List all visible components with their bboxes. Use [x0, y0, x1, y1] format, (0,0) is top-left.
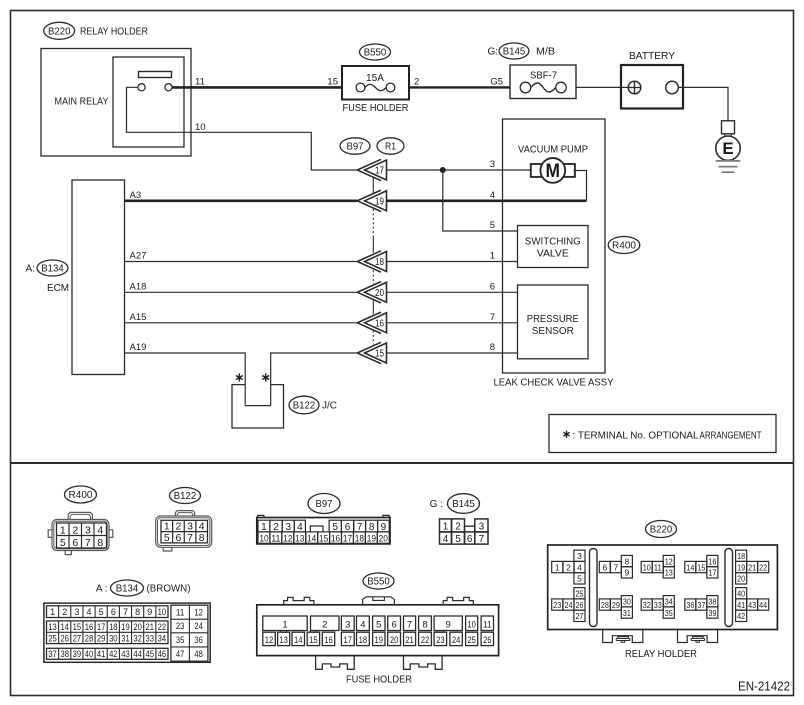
svg-text:A18: A18: [130, 281, 147, 292]
svg-text:M: M: [546, 161, 561, 182]
svg-text:19: 19: [375, 635, 384, 645]
relay holder mounting feet: [603, 630, 718, 643]
svg-text:38: 38: [708, 596, 716, 606]
svg-text:G:: G:: [487, 47, 498, 58]
svg-text:24: 24: [194, 621, 203, 631]
svg-text:A27: A27: [130, 251, 147, 262]
svg-text:8: 8: [199, 532, 205, 544]
svg-text:15: 15: [327, 77, 338, 88]
svg-text:VACUUM PUMP: VACUUM PUMP: [518, 145, 588, 156]
connector B122 pinout label: [170, 488, 201, 504]
svg-text:18: 18: [737, 551, 745, 561]
svg-text:9: 9: [446, 619, 451, 630]
svg-text:23: 23: [176, 621, 185, 631]
pin 2 label: [414, 77, 419, 88]
svg-text:B550: B550: [364, 47, 387, 59]
connector B145 label with M/B: [487, 43, 555, 59]
svg-text:20: 20: [133, 622, 142, 632]
svg-text:5: 5: [164, 532, 170, 544]
fuse F1 symbol: [356, 83, 395, 92]
svg-text:18: 18: [355, 534, 364, 545]
connector R400 label mid: [608, 237, 640, 254]
ground connector ticks: [725, 134, 731, 137]
fuse F1 15A value: [366, 73, 384, 84]
svg-text:17: 17: [343, 534, 352, 545]
svg-text:PRESSURE: PRESSURE: [527, 314, 579, 325]
pin 5 label: [490, 220, 495, 231]
connector B220 pinout label: [646, 521, 677, 538]
svg-text:(BROWN): (BROWN): [147, 584, 191, 595]
wire ECM A27 to triangle 18: [125, 261, 358, 263]
svg-text:19: 19: [121, 622, 130, 632]
wire triangle 20 to pin 6: [387, 291, 518, 293]
pin 15 label: [327, 77, 338, 88]
svg-text:44: 44: [133, 649, 142, 659]
svg-text:43: 43: [748, 600, 756, 610]
pin 3 label: [490, 159, 495, 170]
svg-text:21: 21: [146, 622, 155, 632]
svg-text:E: E: [722, 139, 733, 158]
link triangle 18-20 dashed: [372, 270, 374, 284]
svg-text:1: 1: [60, 524, 66, 536]
svg-text:11: 11: [176, 608, 185, 618]
svg-text:G :: G :: [430, 499, 443, 510]
svg-text:4: 4: [87, 607, 92, 617]
svg-text:R1: R1: [385, 141, 396, 153]
svg-text:41: 41: [737, 600, 745, 610]
wire triangle 16 to pin 7: [387, 322, 518, 324]
leak check valve assy box: [503, 119, 606, 373]
wire battery to ground E: [678, 87, 728, 120]
svg-text:B145: B145: [503, 46, 526, 58]
wire ECM A19 to junction connector: [125, 353, 246, 406]
svg-text:34: 34: [158, 634, 167, 644]
svg-text:37: 37: [48, 649, 57, 659]
svg-text:14: 14: [60, 622, 69, 632]
SBF-7 value label: [530, 71, 557, 82]
svg-text:R400: R400: [69, 489, 93, 501]
svg-text:18: 18: [109, 622, 118, 632]
svg-text:25: 25: [48, 634, 57, 644]
svg-text:12: 12: [665, 556, 673, 566]
connector B134 label A: [26, 260, 68, 276]
svg-text:34: 34: [665, 596, 673, 606]
svg-text:43: 43: [121, 649, 130, 659]
svg-text:8: 8: [135, 607, 140, 617]
svg-text:17: 17: [375, 166, 384, 177]
svg-text:3: 3: [577, 551, 582, 561]
optional terminal asterisk left: [236, 374, 243, 382]
relay holder cells left: [552, 550, 585, 621]
svg-text:A15: A15: [130, 312, 147, 323]
wire relay pin 10 to triangle 17: [127, 87, 358, 170]
connector R1 label: [377, 138, 404, 154]
junction connector B122 box: [232, 385, 284, 428]
svg-text:45: 45: [146, 649, 155, 659]
svg-text:5: 5: [577, 574, 582, 584]
svg-text:B145: B145: [452, 498, 475, 510]
wire triangle 17 to pin 3: [387, 169, 532, 171]
svg-text:2: 2: [176, 521, 182, 533]
svg-text:39: 39: [708, 608, 716, 618]
svg-text:LEAK CHECK VALVE ASSY: LEAK CHECK VALVE ASSY: [494, 378, 614, 389]
svg-text:15A: 15A: [366, 73, 384, 84]
svg-text:3: 3: [187, 521, 193, 533]
svg-text:7: 7: [187, 532, 193, 544]
svg-text:1: 1: [443, 521, 449, 532]
svg-text:33: 33: [146, 634, 155, 644]
relay holder B220 box: [548, 545, 778, 630]
connector B550 label: [360, 44, 391, 60]
svg-text:B134: B134: [41, 263, 64, 275]
svg-text:: TERMINAL No. OPTIONAL: : TERMINAL No. OPTIONAL: [573, 430, 699, 441]
wire triangle 18 to pin 1: [387, 261, 518, 263]
svg-text:10: 10: [643, 562, 651, 572]
svg-text:16: 16: [331, 534, 340, 545]
svg-text:40: 40: [85, 649, 94, 659]
svg-text:SBF-7: SBF-7: [530, 71, 557, 82]
relay contact right: [165, 84, 172, 91]
battery positive terminal: [628, 81, 641, 94]
svg-text:SENSOR: SENSOR: [532, 326, 574, 337]
svg-text:7: 7: [85, 537, 91, 549]
relay coil: [139, 72, 172, 78]
connector B145 pinout label: [430, 494, 480, 514]
svg-text:6: 6: [72, 537, 78, 549]
relay holder cells middle bottom: [599, 596, 718, 619]
svg-text:1: 1: [490, 251, 495, 262]
battery negative terminal: [666, 81, 679, 94]
relay holder slot left: [590, 549, 598, 627]
svg-text:31: 31: [623, 608, 631, 618]
svg-text:16: 16: [375, 318, 384, 329]
connector terminal triangle 15: [357, 342, 386, 363]
svg-text:14: 14: [307, 534, 316, 545]
svg-text:23: 23: [436, 635, 445, 645]
pin 10 label: [195, 122, 206, 133]
relay holder cells middle top: [599, 555, 718, 578]
ground E symbol: [716, 136, 740, 160]
pressure sensor box: [518, 285, 589, 359]
connector B122 label mid: [289, 396, 337, 414]
svg-text:G5: G5: [490, 77, 503, 88]
svg-text:10: 10: [195, 122, 206, 133]
svg-text:B97: B97: [316, 498, 333, 510]
link triangle 16-15 dashed: [372, 331, 374, 345]
svg-text:17: 17: [344, 635, 353, 645]
svg-text:7: 7: [479, 534, 485, 545]
svg-text:B97: B97: [347, 141, 364, 153]
svg-text:11: 11: [483, 619, 492, 630]
link triangle 20-16 solid: [372, 301, 374, 315]
svg-text:6: 6: [111, 607, 116, 617]
label RELAY HOLDER bottom: [625, 649, 697, 660]
svg-text:B550: B550: [367, 576, 390, 588]
ground connector square: [722, 121, 735, 134]
svg-text:9: 9: [147, 607, 152, 617]
connector B122 pin grid: [161, 520, 208, 544]
svg-text:33: 33: [654, 600, 662, 610]
svg-text:32: 32: [133, 634, 142, 644]
svg-text:BATTERY: BATTERY: [629, 51, 675, 62]
svg-text:3: 3: [479, 521, 485, 532]
label FUSE HOLDER bottom: [346, 674, 412, 685]
svg-text:42: 42: [109, 649, 118, 659]
svg-text:48: 48: [194, 649, 203, 659]
connector B550 pinout label: [363, 573, 394, 589]
relay U1 inner box: [113, 57, 184, 147]
svg-text:SWITCHING: SWITCHING: [525, 237, 581, 248]
fusible link SBF-7 box: [510, 65, 576, 99]
svg-text:35: 35: [176, 635, 185, 645]
svg-text:13: 13: [665, 568, 673, 578]
svg-text:1: 1: [282, 619, 287, 630]
svg-text:25: 25: [467, 635, 476, 645]
svg-text:32: 32: [643, 600, 651, 610]
svg-text:4: 4: [97, 524, 103, 536]
svg-text:7: 7: [407, 619, 412, 630]
vacuum pump motor M1: [531, 158, 575, 183]
svg-text:23: 23: [553, 600, 561, 610]
wire SBF-7 to battery: [576, 86, 628, 88]
svg-text:2: 2: [566, 562, 571, 572]
svg-text:15: 15: [309, 635, 318, 645]
ECM pin A15 label: [130, 312, 147, 323]
svg-text:B220: B220: [650, 524, 673, 536]
junction dot node: [440, 167, 446, 173]
svg-text:ECM: ECM: [47, 283, 69, 294]
svg-text:17: 17: [708, 568, 716, 578]
svg-text:11: 11: [654, 562, 662, 572]
svg-text:6: 6: [176, 532, 182, 544]
svg-text:R400: R400: [612, 240, 636, 252]
connector B134 pin grid: [44, 603, 210, 662]
connector B97 pinout label: [308, 494, 340, 514]
svg-text:3: 3: [345, 619, 350, 630]
svg-text:5: 5: [490, 220, 495, 231]
svg-text:39: 39: [73, 649, 82, 659]
wire fuse to SBF-7 (thick): [409, 86, 510, 88]
svg-text:22: 22: [421, 635, 430, 645]
svg-text:20: 20: [375, 288, 384, 299]
pin 4 label: [490, 190, 495, 201]
pin 8 label: [490, 342, 495, 353]
connector terminal triangle 19: [357, 190, 386, 211]
svg-text:12: 12: [283, 534, 292, 545]
svg-text:2: 2: [62, 607, 67, 617]
svg-text:29: 29: [612, 600, 620, 610]
ECM pin A19 label: [130, 342, 147, 353]
svg-text:20: 20: [737, 574, 745, 584]
svg-text:2: 2: [72, 524, 78, 536]
svg-text:15: 15: [375, 349, 384, 360]
svg-text:B122: B122: [293, 400, 316, 412]
svg-text:1: 1: [164, 521, 170, 533]
relay holder slot right: [725, 549, 733, 627]
svg-text:30: 30: [109, 634, 118, 644]
relay holder cells right: [736, 550, 769, 621]
svg-text:1: 1: [50, 607, 55, 617]
svg-text:27: 27: [73, 634, 82, 644]
svg-text:15: 15: [73, 622, 82, 632]
svg-text:6: 6: [391, 619, 396, 630]
wire junction to pin 5: [443, 170, 518, 231]
svg-text:8: 8: [97, 537, 103, 549]
svg-text:4: 4: [443, 534, 449, 545]
svg-text:16: 16: [324, 635, 333, 645]
svg-text:8: 8: [422, 619, 427, 630]
svg-text:7: 7: [613, 562, 618, 572]
svg-text:46: 46: [158, 649, 167, 659]
svg-text:6: 6: [490, 281, 495, 292]
connector terminal triangle 18: [357, 251, 386, 272]
svg-text:22: 22: [158, 622, 167, 632]
svg-text:26: 26: [60, 634, 69, 644]
svg-text:12: 12: [194, 608, 203, 618]
relay contact left: [138, 84, 145, 91]
ECM pin A18 label: [130, 281, 147, 292]
svg-text:13: 13: [279, 635, 288, 645]
ground hatch lines: [716, 161, 741, 172]
connector terminal triangle 17: [357, 159, 386, 180]
svg-text:10: 10: [259, 534, 268, 545]
svg-text:3: 3: [74, 607, 79, 617]
svg-text:19: 19: [737, 562, 745, 572]
svg-text:11: 11: [195, 77, 205, 88]
svg-text:20: 20: [390, 635, 399, 645]
svg-text:B220: B220: [48, 25, 71, 37]
svg-text:14: 14: [294, 635, 303, 645]
svg-text:8: 8: [624, 556, 629, 566]
svg-text:16: 16: [708, 556, 716, 566]
svg-text:B122: B122: [174, 490, 197, 502]
label FUSE HOLDER top: [343, 103, 409, 114]
svg-text:RELAY HOLDER: RELAY HOLDER: [625, 649, 697, 660]
document number EN-21422: [738, 680, 790, 694]
svg-text:28: 28: [601, 600, 609, 610]
link triangle 19-18 dashed then solid: [372, 209, 374, 253]
svg-text:ARRANGEMENT: ARRANGEMENT: [700, 430, 762, 441]
ECM box: [72, 180, 125, 375]
svg-text:VALVE: VALVE: [537, 249, 569, 260]
connector B145 pin cells: [440, 519, 489, 545]
fuse holder B550 mounting feet: [316, 656, 443, 670]
label SWITCHING VALVE: [525, 237, 581, 260]
label MAIN RELAY: [55, 97, 109, 108]
ECM pin A27 label: [130, 251, 147, 262]
svg-text:38: 38: [60, 649, 69, 659]
svg-text:3: 3: [85, 524, 91, 536]
pin 7 label: [490, 312, 495, 323]
pin G5 label: [490, 77, 503, 88]
connector R400 housing: [48, 512, 113, 554]
svg-text:J/C: J/C: [322, 401, 337, 412]
svg-text:19: 19: [375, 196, 384, 207]
junction connector U link: [245, 405, 271, 407]
svg-text:6: 6: [467, 534, 473, 545]
label BATTERY: [629, 51, 675, 62]
connector R400 pinout label: [65, 486, 97, 503]
svg-text:36: 36: [194, 635, 203, 645]
connector terminal triangle 16: [357, 312, 386, 333]
svg-text:21: 21: [405, 635, 414, 645]
section divider line: [11, 462, 794, 464]
svg-text:14: 14: [686, 562, 694, 572]
svg-text:27: 27: [575, 611, 583, 621]
pin 11 label: [195, 77, 205, 88]
svg-text:7: 7: [490, 312, 495, 323]
svg-text:11: 11: [271, 534, 280, 545]
svg-text:6: 6: [602, 562, 607, 572]
connector B97 housing: [257, 515, 390, 544]
svg-text:18: 18: [375, 257, 384, 268]
svg-text:26: 26: [575, 600, 583, 610]
main relay outer box: [41, 49, 191, 157]
svg-text:5: 5: [455, 534, 461, 545]
svg-text:A :: A :: [96, 584, 108, 595]
connector B97 pin cells: [258, 520, 389, 544]
svg-text:44: 44: [759, 600, 767, 610]
fuse holder box: [342, 66, 409, 100]
fusible link SBF-7 symbol: [520, 82, 566, 93]
svg-text:M/B: M/B: [536, 47, 555, 58]
svg-text:FUSE HOLDER: FUSE HOLDER: [346, 674, 412, 685]
svg-text:A19: A19: [130, 342, 147, 353]
label ECM: [47, 283, 69, 294]
svg-text:FUSE HOLDER: FUSE HOLDER: [343, 103, 409, 114]
svg-text:1: 1: [555, 562, 560, 572]
svg-text:A:: A:: [26, 264, 35, 275]
svg-text:35: 35: [665, 608, 673, 618]
svg-text:26: 26: [483, 635, 492, 645]
svg-text:B134: B134: [116, 583, 139, 595]
svg-text:2: 2: [322, 619, 327, 630]
svg-text:17: 17: [97, 622, 106, 632]
svg-text:EN-21422: EN-21422: [738, 680, 790, 694]
svg-text:15: 15: [319, 534, 328, 545]
svg-text:10: 10: [467, 619, 476, 630]
svg-text:47: 47: [176, 649, 185, 659]
svg-text:41: 41: [97, 649, 106, 659]
svg-text:31: 31: [121, 634, 130, 644]
wire triangle 19 to pin 4 (thick): [387, 200, 587, 203]
connector B122 housing: [156, 511, 212, 551]
connector B97 label mid: [340, 138, 370, 154]
note box optional arrangement: [549, 415, 776, 453]
connector terminal triangle 20: [357, 282, 386, 303]
fuse holder B550 housing: [257, 597, 499, 656]
svg-text:2: 2: [455, 521, 461, 532]
svg-text:20: 20: [379, 534, 388, 545]
svg-text:12: 12: [265, 635, 274, 645]
svg-text:4: 4: [490, 190, 495, 201]
svg-text:MAIN RELAY: MAIN RELAY: [55, 97, 109, 108]
wire ECM A15 to triangle 16: [125, 322, 358, 324]
label PRESSURE SENSOR: [527, 314, 579, 337]
svg-text:42: 42: [737, 611, 745, 621]
svg-text:37: 37: [697, 600, 705, 610]
switching valve box: [518, 226, 589, 268]
svg-text:16: 16: [85, 622, 94, 632]
svg-text:18: 18: [359, 635, 368, 645]
svg-text:22: 22: [759, 562, 767, 572]
svg-text:5: 5: [60, 537, 66, 549]
svg-text:40: 40: [737, 588, 745, 598]
svg-text:10: 10: [158, 607, 167, 617]
ECM pin A3 label: [130, 190, 142, 201]
wire triangle 15 to pin 8: [387, 352, 518, 354]
wire ECM A18 to triangle 20: [125, 291, 358, 293]
